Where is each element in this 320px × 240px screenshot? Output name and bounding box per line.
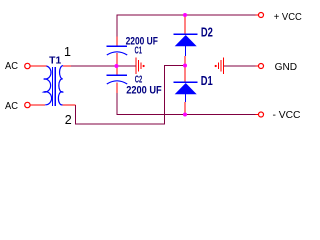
wire transformer pin2 to diode midpoint junction: [76, 66, 184, 125]
diode D1 triangle: [175, 83, 197, 94]
svg-text:+ VCC: + VCC: [274, 12, 302, 23]
capacitor C2 top lead: [116, 66, 118, 75]
transformer T1 primary winding: [44, 66, 52, 105]
terminal +VCC: [256, 14, 259, 16]
wire top rail from C1 corner to +VCC terminal: [117, 15, 256, 37]
svg-text:AC: AC: [5, 101, 18, 112]
svg-text:D2: D2: [201, 26, 213, 40]
diode D2 top lead: [184, 16, 186, 34]
terminal -VCC: [256, 114, 259, 116]
diode D1 anode lead: [185, 94, 187, 102]
diode D1 cathode lead: [184, 67, 186, 82]
capacitor C1 curved plate: [107, 52, 127, 55]
pin lead secondary pin 2: [63, 104, 76, 106]
diode D2 cathode bar: [174, 33, 198, 35]
junction dot capacitor midpoint: [115, 64, 119, 68]
diode D2 triangle: [175, 35, 197, 46]
diode D1 cathode bar: [174, 81, 198, 83]
pin lead AC top: [30, 65, 46, 67]
svg-text:C1: C1: [135, 45, 143, 56]
svg-text:T1: T1: [49, 56, 61, 67]
pin lead AC bottom: [30, 104, 45, 106]
terminal GND: [256, 65, 259, 67]
svg-text:2200 UF: 2200 UF: [126, 85, 162, 97]
svg-text:GND: GND: [275, 61, 298, 73]
svg-text:- VCC: - VCC: [273, 110, 301, 121]
junction dot D2/D1 midpoint: [183, 64, 187, 68]
junction dot bottom rail / D1: [183, 113, 187, 117]
capacitor C1 bottom lead: [116, 53, 118, 66]
svg-text:1: 1: [64, 45, 71, 59]
capacitor C1 plate: [107, 45, 128, 47]
ground symbol at GND power port: [215, 58, 224, 75]
terminal AC bottom circle: [25, 102, 30, 107]
terminal AC top circle: [25, 63, 30, 68]
svg-text:D1: D1: [201, 74, 213, 88]
capacitor C2 bottom lead: [116, 83, 118, 94]
transformer T1 core lines: [51, 67, 53, 106]
pin lead secondary pin 1: [63, 65, 71, 67]
svg-text:2: 2: [65, 113, 72, 127]
diode D2 anode lead: [185, 46, 187, 56]
capacitor C2 curved plate: [107, 81, 127, 84]
transformer T1 secondary winding: [58, 66, 63, 105]
capacitor C1 top lead: [116, 37, 118, 47]
wire transformer pin1 to C1/C2 midpoint and ground stub: [71, 65, 135, 67]
svg-text:AC: AC: [5, 61, 18, 72]
junction dot top rail / D2: [183, 13, 187, 17]
wire GND power port stub: [224, 65, 255, 67]
capacitor C2 plate: [107, 74, 128, 76]
ground symbol at capacitor midpoint: [136, 58, 145, 75]
wire bottom rail C2 bottom to -VCC terminal: [117, 93, 256, 115]
